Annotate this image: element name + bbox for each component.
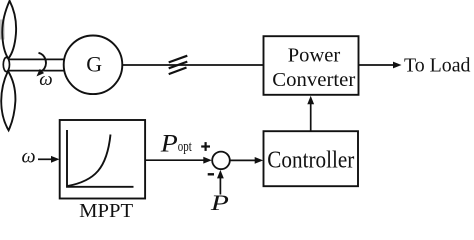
svg-text:P: P bbox=[160, 131, 178, 158]
plus sign bbox=[201, 145, 210, 147]
svg-text:Power: Power bbox=[288, 45, 341, 67]
three-phase slash 2 bbox=[169, 62, 188, 69]
turbine blade shading (gray patch) bbox=[0, 20, 5, 40]
svg-text:ω: ω bbox=[22, 146, 36, 168]
svg-text:Converter: Converter bbox=[272, 69, 355, 91]
svg-text:ω: ω bbox=[39, 69, 52, 90]
svg-text:P: P bbox=[210, 190, 230, 215]
Power Converter box bbox=[264, 36, 359, 95]
svg-text:MPPT: MPPT bbox=[79, 201, 133, 221]
wire MPPT to summing junction bbox=[145, 159, 204, 161]
turbine upper blade bbox=[2, 1, 16, 59]
MPPT power curve bbox=[68, 135, 111, 187]
generator circle G bbox=[64, 36, 123, 95]
turbine lower blade bbox=[1, 71, 15, 130]
shaft lower line bbox=[9, 70, 65, 72]
three-phase slash 3 bbox=[169, 68, 187, 75]
wire summing junction to Controller bbox=[230, 159, 256, 161]
rotation arrow omega arc bbox=[39, 53, 46, 71]
turbine hub bbox=[3, 57, 9, 71]
minus sign bbox=[208, 173, 214, 175]
wire G to Power Converter bbox=[122, 64, 263, 66]
wire Power Converter to load bbox=[359, 64, 395, 66]
MPPT box bbox=[60, 120, 145, 199]
svg-text:G: G bbox=[86, 52, 102, 77]
summing junction bbox=[212, 152, 230, 170]
MPPT axes bbox=[67, 130, 134, 187]
wire omega to MPPT bbox=[38, 158, 52, 160]
wire Controller to Power Converter bbox=[310, 104, 312, 131]
svg-text:opt: opt bbox=[178, 139, 193, 155]
Controller box bbox=[264, 131, 359, 186]
svg-text:Controller: Controller bbox=[267, 148, 354, 174]
three-phase slash 1 bbox=[169, 56, 188, 63]
P feedback wire bbox=[219, 178, 221, 195]
shaft upper line bbox=[9, 58, 65, 60]
svg-text:To Load: To Load bbox=[404, 54, 471, 76]
